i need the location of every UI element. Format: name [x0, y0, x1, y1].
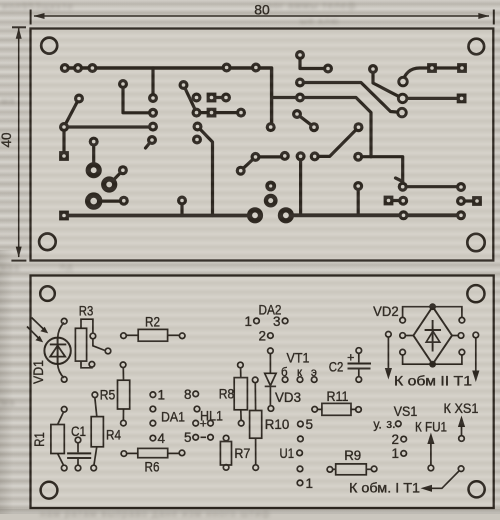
wire net V [389, 199, 404, 202]
U1 label [280, 446, 295, 461]
dimension 80 [31, 10, 494, 25]
R11 pads [312, 407, 361, 413]
svg-text:DA1: DA1 [161, 410, 185, 425]
wire net X curve [403, 68, 462, 82]
svg-text:у.: у. [373, 418, 381, 432]
bridge VD2 diamond [413, 307, 452, 365]
pads net D [74, 94, 84, 104]
resistor R4 [91, 398, 103, 465]
mounting hole B bottom-right [469, 481, 485, 497]
pads net U [292, 109, 302, 119]
VD2 outer wiring top [403, 307, 462, 317]
svg-text:К обм II Т1: К обм II Т1 [394, 374, 472, 389]
pads net J [278, 207, 294, 223]
light arrow 2 [27, 327, 43, 343]
VS1 pin 2 pad [401, 436, 407, 442]
resistor R6 [127, 448, 179, 457]
pads net I [59, 211, 69, 221]
svg-text:VD1: VD1 [31, 360, 46, 384]
TRACES [64, 55, 477, 216]
R8 pads [238, 362, 244, 426]
R3 pads [89, 333, 111, 367]
resistor R9 [333, 464, 371, 475]
wire net S [300, 83, 402, 113]
wire net J bus right [286, 213, 461, 217]
R1 label [32, 432, 47, 447]
mounting hole B top-left [40, 286, 55, 301]
svg-text:R9: R9 [344, 448, 361, 463]
DA2 pin 3 label [273, 314, 281, 329]
svg-text:U1: U1 [280, 446, 295, 461]
svg-text:5: 5 [184, 430, 192, 445]
VD1 pin pads [61, 318, 67, 382]
wire net A horizontal mid right [358, 157, 461, 187]
board outline [31, 29, 494, 261]
svg-text:R10: R10 [265, 417, 290, 432]
IC U1 pads [297, 421, 303, 486]
VS1 pin u label [373, 418, 381, 432]
mounting hole top-left [41, 38, 57, 54]
resistor R10 [250, 383, 262, 464]
svg-text:5: 5 [306, 417, 314, 432]
VD2 pads [400, 317, 465, 355]
pads net M [179, 80, 189, 90]
mounting hole bottom-left [39, 234, 56, 251]
pad row net A [60, 63, 70, 73]
label K FU1 [415, 420, 447, 435]
pads net X [397, 76, 408, 87]
pad net C [148, 93, 158, 103]
photodiode VD1 [44, 323, 70, 378]
VD2 corner solder dots [429, 303, 436, 367]
U1 pin 5 label [306, 417, 314, 432]
wire net U [297, 114, 314, 127]
wire net J stub 1 [299, 156, 302, 215]
mounting hole B top-right [467, 285, 484, 302]
VT1 pads [282, 377, 317, 383]
R11 label [327, 389, 349, 404]
R8 label [219, 387, 235, 402]
mounting hole top-right [469, 39, 485, 55]
VS1 pin e label [386, 417, 395, 431]
wire to T1 winding I [421, 466, 464, 492]
mounting hole bottom-right [467, 234, 484, 251]
wire net I stub 2 [198, 127, 213, 216]
svg-text:80: 80 [254, 2, 270, 18]
wire net I stub 1 [180, 201, 183, 216]
svg-text:C2: C2 [329, 360, 344, 375]
svg-text:К обм. I Т1: К обм. I Т1 [349, 481, 420, 496]
VS1 gate pad [396, 421, 402, 427]
wire net J stub 2 [357, 186, 360, 215]
svg-text:VT1: VT1 [287, 351, 310, 366]
pads net B [118, 79, 128, 89]
C1 label [71, 424, 86, 439]
pads net O [236, 166, 246, 176]
wire net G [109, 170, 123, 184]
pad net K [192, 93, 202, 103]
R6 pads [121, 450, 185, 456]
R1 pads [61, 407, 67, 471]
label K obm II T1 [394, 374, 472, 389]
resistor R11 [318, 403, 355, 415]
svg-text:VD2: VD2 [373, 304, 399, 319]
R4 pads [91, 392, 98, 471]
capacitor C2 [348, 354, 372, 377]
light arrow 1 [32, 318, 49, 334]
wire net P [315, 127, 359, 156]
board outline bottom [31, 276, 494, 509]
resistor R8 [234, 368, 247, 420]
svg-text:+: + [200, 417, 207, 431]
pads net V [384, 196, 394, 206]
DA2 pin 2 label [258, 329, 266, 344]
VD1 label [31, 360, 46, 384]
pads net R [295, 50, 305, 60]
VD3 label [275, 390, 301, 405]
svg-text:1: 1 [244, 314, 252, 329]
C2 label [329, 360, 344, 375]
dimension 80 label [254, 2, 270, 18]
DA2 pin 1 label [244, 314, 252, 329]
pads net G [118, 165, 128, 175]
svg-text:1: 1 [158, 388, 166, 403]
wire net O [241, 157, 285, 171]
pads net Q vias [264, 181, 278, 208]
DA1 pin 4 label [158, 431, 166, 446]
DA1 label [161, 410, 185, 425]
PADS [59, 50, 482, 223]
svg-text:R7: R7 [234, 446, 250, 461]
VT1 pin e label [311, 367, 317, 379]
wire to FU1 arrow [427, 433, 434, 471]
resistor R3 [75, 319, 105, 368]
C2 pads [356, 348, 362, 383]
IC DA2 label [259, 303, 282, 318]
svg-text:VS1: VS1 [394, 404, 418, 419]
svg-text:C1: C1 [71, 424, 86, 439]
bleed-through page texture [2, 2, 74, 13]
pad net E [147, 135, 157, 145]
svg-text:К XS1: К XS1 [444, 401, 479, 416]
label K XS1 [444, 401, 479, 416]
svg-text:4: 4 [158, 431, 166, 446]
svg-text:R4: R4 [106, 428, 121, 443]
R7 label [234, 446, 250, 461]
pads net W [456, 196, 466, 206]
wire net B [123, 84, 153, 113]
wire net D [64, 99, 153, 157]
HL1 plus label [200, 417, 207, 431]
resistor R5 [118, 368, 130, 420]
HL1 pin 8 label [184, 387, 192, 402]
svg-text:1: 1 [391, 446, 399, 461]
pads net F [89, 137, 99, 147]
dimension 40 [11, 27, 26, 260]
wire net R [300, 55, 328, 69]
capacitor C1 [67, 443, 91, 465]
wire net C [151, 68, 154, 98]
R6 label [145, 460, 160, 475]
VS1 pin 1 label [391, 446, 399, 461]
svg-text:з.: з. [386, 417, 395, 431]
U1 pin 1 label [306, 476, 314, 491]
svg-text:R3: R3 [79, 304, 94, 319]
wire net E stub [146, 140, 153, 148]
R7 pads [223, 435, 229, 470]
svg-text:2: 2 [258, 329, 266, 344]
resistor R2 [127, 329, 180, 341]
svg-text:К FU1: К FU1 [415, 420, 447, 435]
IC DA1 pads [150, 392, 156, 441]
svg-text:3: 3 [273, 314, 281, 329]
R10 label [265, 417, 290, 432]
svg-text:R11: R11 [327, 389, 349, 404]
DA2 pads [254, 318, 288, 338]
VS1 pin 2 label [391, 432, 399, 447]
wire net W [461, 199, 477, 202]
C2 plus label [347, 351, 354, 365]
transistor VT1 label [287, 351, 310, 366]
HL1 label [200, 409, 223, 424]
pads net P [310, 151, 320, 161]
VD2 outer wiring bottom [403, 355, 462, 364]
VS1 pin 1 pad [401, 451, 407, 457]
wire net I ground bus left [64, 214, 255, 218]
label K obm I T1 [349, 481, 420, 496]
pads net T [368, 64, 378, 74]
thyristor VS1 label [394, 404, 418, 419]
pads net S [295, 78, 305, 88]
LED HL1 pads [193, 391, 213, 440]
R4 label [106, 428, 121, 443]
R2 label [145, 315, 160, 330]
R3 label [79, 304, 94, 319]
R9 pads [327, 466, 377, 472]
svg-text:2: 2 [391, 432, 399, 447]
wire net H [94, 200, 124, 203]
R5 label [100, 388, 116, 403]
R5 pads [120, 362, 126, 426]
C1 pads [75, 437, 81, 471]
dimension 40 label [0, 132, 14, 147]
wire to XS1 arrow [458, 416, 465, 442]
svg-text:+: + [347, 351, 354, 365]
R10 pads [252, 377, 258, 470]
svg-text:R8: R8 [219, 387, 235, 402]
resistor R1 [51, 413, 64, 465]
svg-text:40: 40 [0, 132, 14, 147]
VD3 pads [268, 348, 274, 411]
diode VD3 [265, 354, 276, 405]
wire to T1 winding II left arrow [385, 332, 392, 380]
svg-text:R2: R2 [145, 315, 160, 330]
svg-text:R6: R6 [145, 460, 160, 475]
VT1 pin k label [297, 367, 303, 379]
svg-text:R5: R5 [100, 388, 116, 403]
svg-text:VD3: VD3 [275, 390, 301, 405]
bridge VD2 label [373, 304, 399, 319]
wire to T1 winding II right arrow [472, 332, 479, 382]
mounting hole B bottom-left [41, 482, 58, 499]
svg-text:1: 1 [306, 476, 314, 491]
resistor R7 [220, 442, 231, 466]
wire net A branch right [272, 98, 371, 157]
R9 label [344, 448, 361, 463]
VD2 side links [406, 335, 458, 337]
pads net L [207, 93, 217, 103]
VT1 pin b label [281, 367, 288, 379]
wire net A nub [396, 178, 403, 182]
R2 pads [121, 333, 185, 339]
pads net H [85, 192, 102, 209]
wire net F [92, 142, 95, 171]
wire net A top bus [65, 68, 272, 127]
DA1 pin 1 label [158, 388, 166, 403]
wire net L [212, 96, 227, 99]
wire net M [184, 85, 242, 113]
HL1 pin 5 label [184, 430, 192, 445]
pad net N [192, 135, 202, 145]
svg-text:8: 8 [184, 387, 192, 402]
svg-text:R1: R1 [32, 432, 47, 447]
HL1 minus label [201, 436, 207, 438]
wire net T [373, 69, 462, 98]
